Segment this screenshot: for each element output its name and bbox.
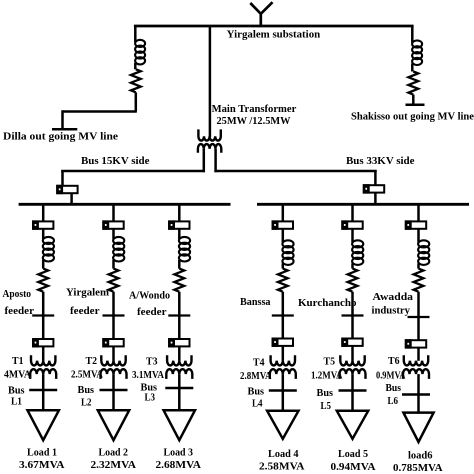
wire (417, 229, 420, 243)
svg-text:Load 5: Load 5 (338, 448, 368, 460)
breaker feeder F3 A/Wondo (168, 220, 189, 229)
wire main transformer primary (209, 26, 212, 137)
wire (351, 263, 354, 268)
wire feeder F5 Kurchancho drop (351, 203, 354, 221)
wire (282, 316, 285, 339)
wire (374, 193, 377, 205)
svg-text:2.32MVA: 2.32MVA (91, 459, 137, 471)
load triangle F3 A/Wondo (164, 410, 195, 440)
bus bar L F5 Kurchancho (339, 389, 367, 392)
svg-text:3.1MVA: 3.1MVA (132, 369, 164, 381)
bus bar L F3 A/Wondo (165, 387, 193, 390)
svg-text:Bus: Bus (386, 382, 402, 394)
resistor feeder F4 Banssa (278, 269, 288, 292)
wire (112, 260, 115, 269)
wire (351, 229, 354, 243)
svg-text:feeder: feeder (137, 306, 167, 318)
bus 15KV bar (19, 203, 231, 206)
wire (282, 391, 285, 412)
inductor feeder F3 A/Wondo (179, 237, 190, 262)
svg-text:Aposto: Aposto (3, 288, 32, 300)
wire 33KV upper run (214, 170, 376, 173)
transformer F5 Kurchancho primary winding (340, 355, 364, 365)
transformer F2 Yirgalem primary winding (101, 355, 125, 365)
bus bar L F4 Banssa (269, 389, 297, 392)
transformer F3 A/Wondo secondary winding (166, 369, 192, 379)
svg-text:4MVA: 4MVA (4, 368, 31, 380)
breaker 33KV incomer (363, 184, 384, 193)
svg-text:1.2MVA: 1.2MVA (311, 370, 343, 382)
breaker transformer F4 Banssa (272, 338, 293, 347)
svg-text:2.8MVA: 2.8MVA (240, 370, 272, 382)
inductor feeder F1 Aposto (43, 237, 54, 262)
wire (112, 229, 115, 239)
svg-text:0.94MVA: 0.94MVA (331, 461, 376, 473)
inductor feeder F6 Awadda (418, 240, 429, 265)
wire (42, 292, 45, 316)
wire secondary leg 33KV (214, 149, 217, 172)
svg-text:Awadda: Awadda (373, 291, 414, 303)
wire (282, 292, 285, 316)
wire (417, 263, 420, 268)
load triangle F1 Aposto (28, 410, 59, 440)
transformer F3 A/Wondo primary winding (167, 355, 191, 365)
svg-text:0.9MVA: 0.9MVA (376, 370, 406, 382)
wire feeder F6 Awadda drop (417, 203, 420, 221)
svg-text:0.785MVA: 0.785MVA (393, 462, 443, 474)
inductor feeder F2 Yirgalem (113, 237, 124, 262)
wire (42, 229, 45, 239)
wire (351, 391, 354, 412)
disconnect switch feeder F2 Yirgalem (103, 314, 125, 316)
svg-text:25MW /12.5MW: 25MW /12.5MW (217, 115, 291, 127)
svg-text:Bus: Bus (78, 384, 95, 396)
svg-text:Yirgalem substation: Yirgalem substation (227, 29, 320, 41)
transformer F2 Yirgalem secondary winding (101, 369, 127, 379)
svg-text:Load 4: Load 4 (268, 448, 299, 460)
wire (178, 374, 181, 388)
wire (351, 316, 354, 339)
breaker feeder F4 Banssa (272, 220, 293, 229)
wire (178, 388, 181, 411)
svg-text:A/Wondo: A/Wondo (129, 289, 170, 301)
svg-text:Load 3: Load 3 (164, 447, 194, 459)
wire (351, 374, 354, 390)
wire (282, 229, 285, 243)
resistor feeder F5 Kurchancho (348, 269, 358, 292)
breaker transformer F1 Aposto (32, 338, 53, 347)
resistor feeder F6 Awadda (414, 269, 424, 292)
bus bar L F1 Aposto (29, 389, 57, 392)
wire Dilla drop (134, 26, 137, 42)
wire (417, 395, 420, 414)
wire (112, 346, 115, 360)
wire (112, 292, 115, 316)
wire Shakisso drop (411, 26, 414, 43)
transformer F6 Awadda secondary winding (403, 369, 429, 379)
wire (417, 374, 420, 394)
svg-text:L6: L6 (388, 395, 399, 407)
svg-text:Main Transformer: Main Transformer (212, 103, 297, 115)
svg-text:Dilla out going MV line: Dilla out going MV line (3, 130, 118, 142)
transformer F1 Aposto primary winding (31, 355, 55, 365)
transformer F6 Awadda primary winding (404, 355, 428, 365)
wire (42, 374, 45, 390)
svg-text:load6: load6 (408, 450, 433, 462)
wire (282, 374, 285, 390)
wire (417, 348, 420, 361)
wire (417, 317, 420, 340)
svg-text:L5: L5 (321, 400, 332, 412)
breaker transformer F3 A/Wondo (168, 338, 189, 347)
terminal bar Shakisso (406, 104, 425, 107)
wire (135, 92, 138, 111)
svg-text:Bus: Bus (8, 384, 25, 396)
wire feeder F1 Aposto drop (42, 203, 45, 221)
breaker transformer F5 Kurchancho (341, 338, 362, 347)
wire (178, 229, 181, 239)
svg-text:T5: T5 (324, 356, 336, 368)
transformer F5 Kurchancho secondary winding (340, 369, 366, 379)
transformer F4 Banssa primary winding (271, 355, 295, 365)
svg-text:Banssa: Banssa (240, 296, 271, 308)
svg-text:Bus 15KV side: Bus 15KV side (81, 155, 150, 167)
svg-text:feeder: feeder (5, 305, 35, 317)
wire (178, 260, 181, 269)
resistor feeder F3 A/Wondo (174, 269, 184, 292)
wire (178, 346, 181, 360)
svg-text:L3: L3 (145, 391, 156, 403)
inductor Dilla line reactor (135, 40, 145, 65)
svg-text:Kurchancho: Kurchancho (298, 297, 357, 309)
svg-text:Shakisso out going MV line: Shakisso out going MV line (351, 110, 474, 122)
svg-text:2.5MVA: 2.5MVA (71, 368, 103, 380)
wire (411, 64, 414, 72)
wire secondary leg 15KV (203, 149, 206, 172)
inductor Shakisso line reactor (412, 40, 422, 65)
wire feeder F4 Banssa drop (282, 203, 285, 221)
wire (134, 63, 137, 69)
bus bar L F6 Awadda (402, 393, 430, 396)
wire (282, 263, 285, 268)
wire (42, 390, 45, 411)
svg-text:Bus: Bus (317, 387, 334, 399)
bus 33KV bar (257, 203, 469, 206)
svg-text:T6: T6 (388, 355, 400, 367)
transformer F1 Aposto secondary winding (30, 369, 56, 379)
load triangle F2 Yirgalem (98, 410, 129, 440)
svg-text:Bus: Bus (248, 385, 265, 397)
svg-text:Bus 33KV side: Bus 33KV side (346, 155, 415, 167)
svg-text:2.58MVA: 2.58MVA (259, 461, 305, 473)
wire (42, 260, 45, 269)
breaker feeder F2 Yirgalem (102, 220, 123, 229)
wire feeder F3 A/Wondo drop (178, 203, 181, 221)
svg-text:T1: T1 (12, 355, 24, 367)
inductor feeder F4 Banssa (282, 240, 293, 265)
transformer F4 Banssa secondary winding (270, 369, 296, 379)
wire (351, 292, 354, 316)
wire top horizontal (134, 25, 414, 28)
resistor feeder F2 Yirgalem (109, 269, 119, 292)
antenna / incoming line symbol (250, 2, 272, 27)
wire 33KV incomer drop (374, 170, 377, 185)
inductor feeder F5 Kurchancho (352, 240, 363, 265)
wire (112, 316, 115, 340)
wire (112, 374, 115, 390)
wire 15KV incomer drop (61, 170, 64, 186)
main transformer primary winding (198, 129, 220, 140)
load triangle F4 Banssa (267, 411, 298, 439)
disconnect switch feeder F6 Awadda (408, 316, 430, 318)
wire (351, 346, 354, 361)
svg-text:T3: T3 (146, 356, 158, 368)
wire (178, 316, 181, 340)
wire (42, 346, 45, 360)
breaker feeder F6 Awadda (405, 220, 426, 229)
wire horizontal to Dilla terminal (63, 110, 137, 113)
load triangle F5 Kurchancho (337, 411, 368, 439)
svg-text:L2: L2 (81, 397, 92, 409)
svg-text:L4: L4 (252, 398, 263, 410)
wire (112, 390, 115, 411)
resistor Dilla line (131, 69, 141, 92)
disconnect switch feeder F4 Banssa (272, 314, 294, 316)
wire 15KV upper run (61, 170, 205, 173)
disconnect switch feeder F5 Kurchancho (342, 314, 364, 316)
svg-text:2.68MVA: 2.68MVA (156, 459, 202, 471)
main transformer secondary winding (198, 144, 221, 153)
svg-text:Load 2: Load 2 (99, 447, 129, 459)
load triangle F6 Awadda (403, 413, 433, 442)
wire (412, 95, 415, 105)
svg-text:Load 1: Load 1 (27, 447, 57, 459)
svg-text:T2: T2 (86, 355, 98, 367)
wire Dilla terminal drop (61, 110, 64, 129)
svg-text:T4: T4 (253, 357, 265, 369)
wire feeder F2 Yirgalem drop (112, 203, 115, 221)
svg-text:feeder: feeder (70, 305, 100, 317)
breaker transformer F2 Yirgalem (102, 338, 123, 347)
wire (42, 316, 45, 340)
svg-text:L1: L1 (11, 396, 22, 408)
breaker 15KV incomer (56, 185, 77, 194)
wire (417, 292, 420, 317)
resistor feeder F1 Aposto (38, 269, 48, 292)
breaker feeder F5 Kurchancho (341, 220, 362, 229)
wire (282, 346, 285, 361)
wire (70, 193, 73, 205)
svg-text:3.67MVA: 3.67MVA (19, 459, 65, 471)
svg-text:Yirgalem: Yirgalem (66, 287, 109, 299)
resistor Shakisso line (408, 72, 418, 95)
wire (178, 292, 181, 316)
disconnect switch feeder F1 Aposto (32, 314, 54, 316)
breaker feeder F1 Aposto (32, 220, 53, 229)
disconnect switch feeder F3 A/Wondo (168, 314, 190, 316)
svg-text:industry: industry (372, 304, 411, 316)
terminal bar Dilla (52, 128, 77, 131)
breaker transformer F6 Awadda (405, 339, 426, 348)
bus bar L F2 Yirgalem (100, 389, 128, 392)
